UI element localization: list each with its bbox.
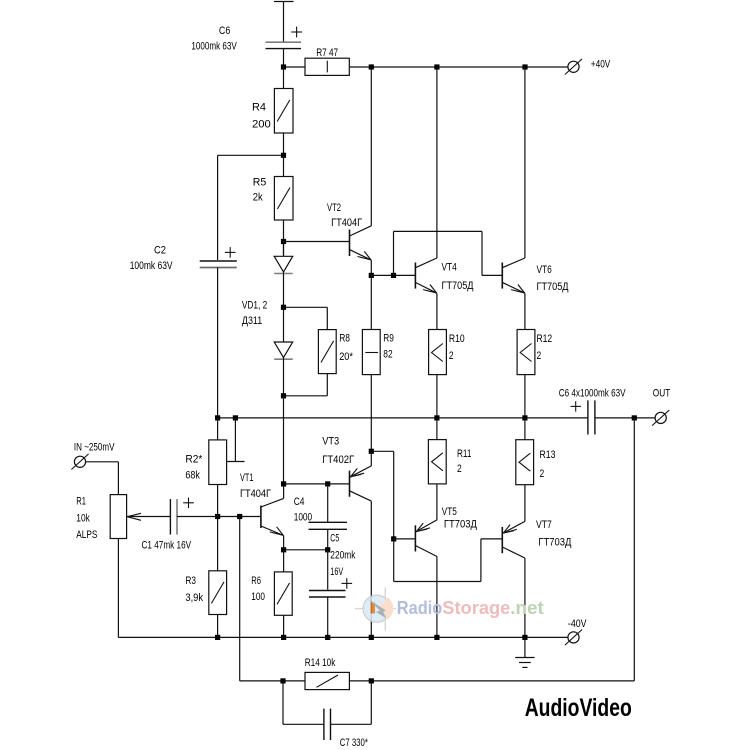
node VT2 base (281, 239, 286, 244)
node VT3 emitter (369, 449, 374, 454)
R2 tap wire (227, 418, 245, 462)
wire diode chain down to VT1 collector node (crosses bus) (283, 396, 285, 484)
capacitor C7 330* (283, 681, 371, 749)
node: rail VT6 collector (522, 64, 527, 69)
node C1/R2-R3 (215, 514, 220, 519)
terminal -40V (565, 618, 587, 645)
resistor R5 2k (253, 177, 293, 221)
resistor R7 47 (305, 47, 349, 76)
node rail/R3 (215, 635, 220, 640)
svg-text:VT4: VT4 (442, 262, 457, 274)
svg-text:ГТ705Д: ГТ705Д (442, 280, 474, 292)
node C4 top (325, 481, 330, 486)
wire R14 right to feedback riser (349, 418, 634, 681)
-40V rail wire (118, 636, 567, 638)
wire to VT2 base (284, 241, 350, 243)
svg-text:+40V: +40V (591, 59, 611, 71)
svg-text:-40V: -40V (568, 618, 587, 630)
node rail/R6 (281, 635, 286, 640)
svg-text:1000: 1000 (294, 512, 313, 524)
resistor R10 2 (429, 330, 465, 418)
svg-text:R12: R12 (537, 333, 553, 345)
svg-text:R2*: R2* (185, 454, 203, 466)
svg-text:OUT: OUT (653, 388, 671, 400)
svg-text:R8: R8 (339, 333, 350, 345)
node R14 left (280, 678, 285, 683)
svg-text:VT3: VT3 (322, 436, 339, 448)
svg-text:R10: R10 (449, 333, 465, 345)
svg-text:68k: 68k (185, 469, 200, 481)
svg-text:VT2: VT2 (327, 202, 341, 214)
terminal OUT (652, 388, 670, 426)
node C5 top (325, 547, 330, 552)
svg-text:IN ~250mV: IN ~250mV (74, 442, 115, 454)
diode VD2 (274, 307, 293, 396)
wire VT5 base (394, 538, 416, 540)
resistor R6 100 (251, 550, 292, 638)
svg-text:C4: C4 (294, 496, 305, 508)
svg-text:R9: R9 (383, 333, 394, 345)
svg-text:R11: R11 (457, 448, 471, 460)
resistor R12 2 (517, 330, 552, 418)
svg-text:200: 200 (252, 119, 271, 131)
svg-text:R4: R4 (252, 102, 266, 114)
wire emitter to C5 (284, 549, 328, 551)
node base link riser (391, 273, 396, 278)
wire R5 to VT2 base node (283, 220, 285, 256)
svg-text:VD1, 2: VD1, 2 (242, 300, 267, 312)
node VD1/R8 (281, 305, 286, 310)
node VT1 emitter (281, 547, 286, 552)
node VT1 collector / diode chain (281, 481, 286, 486)
svg-text:C6: C6 (219, 25, 230, 37)
resistor R9 82 (362, 275, 394, 451)
+40V rail wire (284, 66, 568, 68)
feedback wire from VT1 base node down (240, 517, 305, 681)
output bus wire (218, 417, 656, 419)
wire R4-R5 with node to C2 (218, 133, 287, 177)
svg-text:VT5: VT5 (442, 506, 457, 518)
svg-text:ALPS: ALPS (76, 529, 97, 541)
node VT5 base (391, 536, 396, 541)
diode VD1 (274, 242, 293, 308)
svg-text:C7 330*: C7 330* (340, 737, 369, 749)
ground (515, 637, 534, 667)
svg-text:100mk 63V: 100mk 63V (130, 260, 173, 272)
svg-text:R13: R13 (540, 449, 556, 461)
svg-text:20*: 20* (339, 351, 353, 363)
resistor R8 20* (284, 307, 354, 396)
terminal +40V (565, 59, 611, 75)
node VD2/R8 bottom (281, 393, 286, 398)
watermark globe (355, 588, 396, 631)
svg-text:R3: R3 (185, 575, 196, 587)
wire VT4/VT6 base link (394, 231, 503, 275)
svg-text:ГТ703Д: ГТ703Д (444, 519, 477, 531)
svg-text:R5: R5 (253, 177, 267, 189)
svg-text:VT1: VT1 (240, 472, 254, 484)
node rail/VT5 collector (434, 635, 439, 640)
svg-text:ГТ404Г: ГТ404Г (331, 217, 362, 229)
wire base U-link to VT7 (394, 539, 503, 582)
node: rail VT4 collector (434, 64, 439, 69)
svg-text:RadioStorage.net: RadioStorage.net (397, 598, 544, 618)
svg-text:2k: 2k (253, 192, 263, 204)
svg-text:220mk: 220mk (330, 550, 355, 562)
svg-text:1000mk 63V: 1000mk 63V (191, 41, 237, 53)
transistor VT2 GT404G (327, 67, 371, 275)
transistor VT1 GT404G (240, 472, 284, 550)
capacitor C4 1000 (294, 484, 347, 550)
svg-text:2: 2 (540, 468, 545, 480)
svg-text:3,9k: 3,9k (185, 592, 203, 604)
svg-text:2: 2 (449, 350, 454, 362)
resistor R2* 68k (185, 418, 226, 571)
svg-text:AudioVideo: AudioVideo (525, 694, 632, 722)
label VD1,2 D311 (242, 300, 267, 328)
transistor VT3 GT402G (322, 436, 371, 638)
svg-text:82: 82 (383, 349, 392, 361)
svg-text:ГТ705Д: ГТ705Д (537, 281, 569, 293)
node: C6/R7/R4 junction (281, 64, 286, 69)
node bus/feedback (632, 415, 637, 420)
node VT2 emitter / VT4 base wire (369, 273, 374, 278)
capacitor C6 output 4x1000mk 63V (559, 388, 626, 435)
node rail/VT7 collector (522, 635, 527, 640)
capacitor C2 100mk 63V (130, 155, 237, 418)
node C1/feedback (237, 514, 242, 519)
svg-text:C2: C2 (154, 245, 166, 257)
svg-text:C5: C5 (330, 533, 339, 545)
svg-text:ГТ404Г: ГТ404Г (240, 488, 271, 500)
svg-text:C6 4x1000mk 63V: C6 4x1000mk 63V (559, 388, 626, 400)
svg-text:2: 2 (537, 350, 542, 362)
node bus/R10-R11 (434, 415, 439, 420)
svg-text:2: 2 (457, 463, 462, 475)
svg-text:10k: 10k (76, 513, 90, 525)
transistor VT6 GT705D (502, 67, 569, 330)
node rail/VT3 collector (369, 635, 374, 640)
svg-text:16V: 16V (330, 566, 343, 578)
terminal IN (71, 454, 118, 495)
resistor R4 200 (252, 67, 293, 133)
node R14 right (369, 678, 374, 683)
node bus/R2 tap (233, 415, 238, 420)
svg-text:Д311: Д311 (242, 315, 262, 327)
wire collector node to VT3 base (284, 483, 350, 485)
resistor R14 10k (305, 657, 350, 689)
capacitor C5 220mk 16V (309, 533, 356, 638)
svg-text:R14 10k: R14 10k (305, 657, 336, 669)
svg-text:C1 47mk 16V: C1 47mk 16V (142, 540, 192, 552)
transistor VT5 GT703D (415, 506, 477, 637)
transistor VT4 GT705D (415, 67, 474, 330)
svg-text:R1: R1 (76, 496, 86, 508)
capacitor C1 47mk 16V (142, 498, 261, 552)
node rail/C5 (325, 635, 330, 640)
svg-text:R6: R6 (251, 575, 261, 587)
svg-text:VT6: VT6 (537, 264, 552, 276)
node bus/C2-R2 (215, 415, 220, 420)
resistor R11 2 (428, 418, 471, 520)
potentiometer R1 10k ALPS (76, 495, 170, 638)
wire VT3 emitter to VT5/VT7 base riser (371, 451, 393, 539)
capacitor C6 (top, 1000mk 63V) (191, 25, 302, 67)
node bus/R12-R13 (522, 415, 527, 420)
svg-text:R7 47: R7 47 (316, 47, 338, 59)
svg-text:VT7: VT7 (536, 519, 552, 531)
transistor VT7 GT703D (502, 519, 572, 637)
resistor R3 3,9k (185, 571, 226, 638)
supply top bar (274, 2, 294, 42)
resistor R13 2 (516, 418, 556, 522)
node: rail VT2 collector (369, 64, 374, 69)
svg-text:ГТ402Г: ГТ402Г (322, 454, 354, 466)
svg-text:100: 100 (251, 591, 265, 603)
svg-text:ГТ703Д: ГТ703Д (538, 537, 571, 549)
